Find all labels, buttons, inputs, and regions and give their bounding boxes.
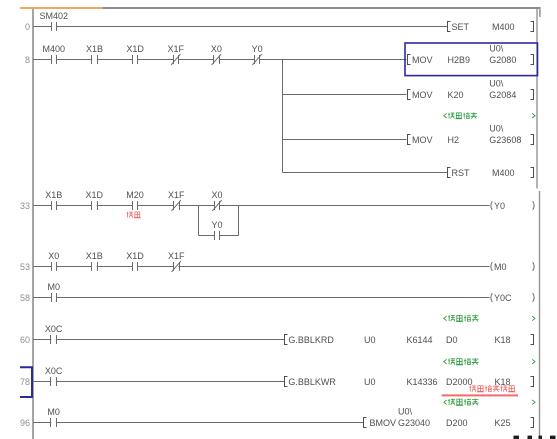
svg-text:X1B: X1B: [86, 251, 103, 261]
svg-text:X1D: X1D: [126, 44, 144, 54]
svg-text:X0: X0: [211, 44, 222, 54]
svg-text:K20: K20: [448, 90, 464, 100]
svg-text:78: 78: [20, 377, 30, 387]
svg-text:K18: K18: [495, 377, 511, 387]
svg-text:G2084: G2084: [489, 90, 516, 100]
svg-text:K14336: K14336: [407, 377, 438, 387]
svg-text:X0: X0: [48, 251, 59, 261]
svg-text:U0: U0: [364, 377, 376, 387]
svg-text:G.BBLKWR: G.BBLKWR: [288, 377, 336, 387]
svg-text:SET: SET: [452, 22, 470, 32]
svg-text:G2080: G2080: [489, 55, 516, 65]
svg-text:Y0: Y0: [211, 220, 222, 230]
svg-text:M0: M0: [494, 262, 507, 272]
svg-text:RST: RST: [452, 168, 471, 178]
svg-text:Y0: Y0: [252, 44, 263, 54]
svg-text:M400: M400: [492, 168, 515, 178]
svg-text:MOV: MOV: [412, 90, 433, 100]
svg-text:X0C: X0C: [45, 366, 63, 376]
svg-text:K18: K18: [495, 335, 511, 345]
svg-text:0: 0: [25, 22, 30, 32]
svg-text:X0: X0: [211, 190, 222, 200]
svg-text:X0C: X0C: [45, 324, 63, 334]
svg-text:MOV: MOV: [412, 135, 433, 145]
svg-text:X1F: X1F: [168, 190, 185, 200]
svg-text:M0: M0: [47, 407, 60, 417]
svg-text:U0\: U0\: [489, 123, 504, 133]
svg-text:H2: H2: [448, 135, 460, 145]
svg-text:X1F: X1F: [168, 251, 185, 261]
svg-text:Y0C: Y0C: [494, 293, 512, 303]
svg-text:X1B: X1B: [86, 44, 103, 54]
svg-text:K6144: K6144: [407, 335, 433, 345]
svg-text:X1D: X1D: [126, 251, 144, 261]
svg-text:60: 60: [20, 335, 30, 345]
svg-text:D2000: D2000: [446, 377, 473, 387]
svg-text:U0\: U0\: [398, 406, 413, 416]
svg-text:96: 96: [20, 418, 30, 428]
svg-text:G23608: G23608: [489, 135, 521, 145]
svg-text:X1F: X1F: [168, 44, 185, 54]
svg-text:SM402: SM402: [40, 11, 69, 21]
svg-text:M20: M20: [126, 190, 144, 200]
svg-text:M0: M0: [48, 282, 61, 292]
svg-text:X1D: X1D: [86, 190, 104, 200]
svg-text:G.BBLKRD: G.BBLKRD: [288, 335, 334, 345]
svg-text:MOV: MOV: [412, 55, 433, 65]
svg-text:X1B: X1B: [45, 190, 62, 200]
svg-text:M400: M400: [43, 44, 66, 54]
svg-text:D200: D200: [446, 418, 468, 428]
svg-text:U0\: U0\: [489, 43, 504, 53]
svg-text:33: 33: [20, 201, 30, 211]
svg-text:K25: K25: [495, 418, 511, 428]
svg-text:53: 53: [20, 262, 30, 272]
svg-text:M400: M400: [492, 22, 515, 32]
svg-text:Y0: Y0: [494, 201, 505, 211]
svg-text:BMOV: BMOV: [370, 418, 397, 428]
svg-text:D0: D0: [446, 335, 458, 345]
svg-text:G23040: G23040: [398, 418, 430, 428]
svg-text:U0\: U0\: [489, 78, 504, 88]
svg-text:U0: U0: [364, 335, 376, 345]
svg-text:H2B9: H2B9: [448, 55, 471, 65]
svg-text:8: 8: [25, 55, 30, 65]
svg-text:58: 58: [20, 293, 30, 303]
